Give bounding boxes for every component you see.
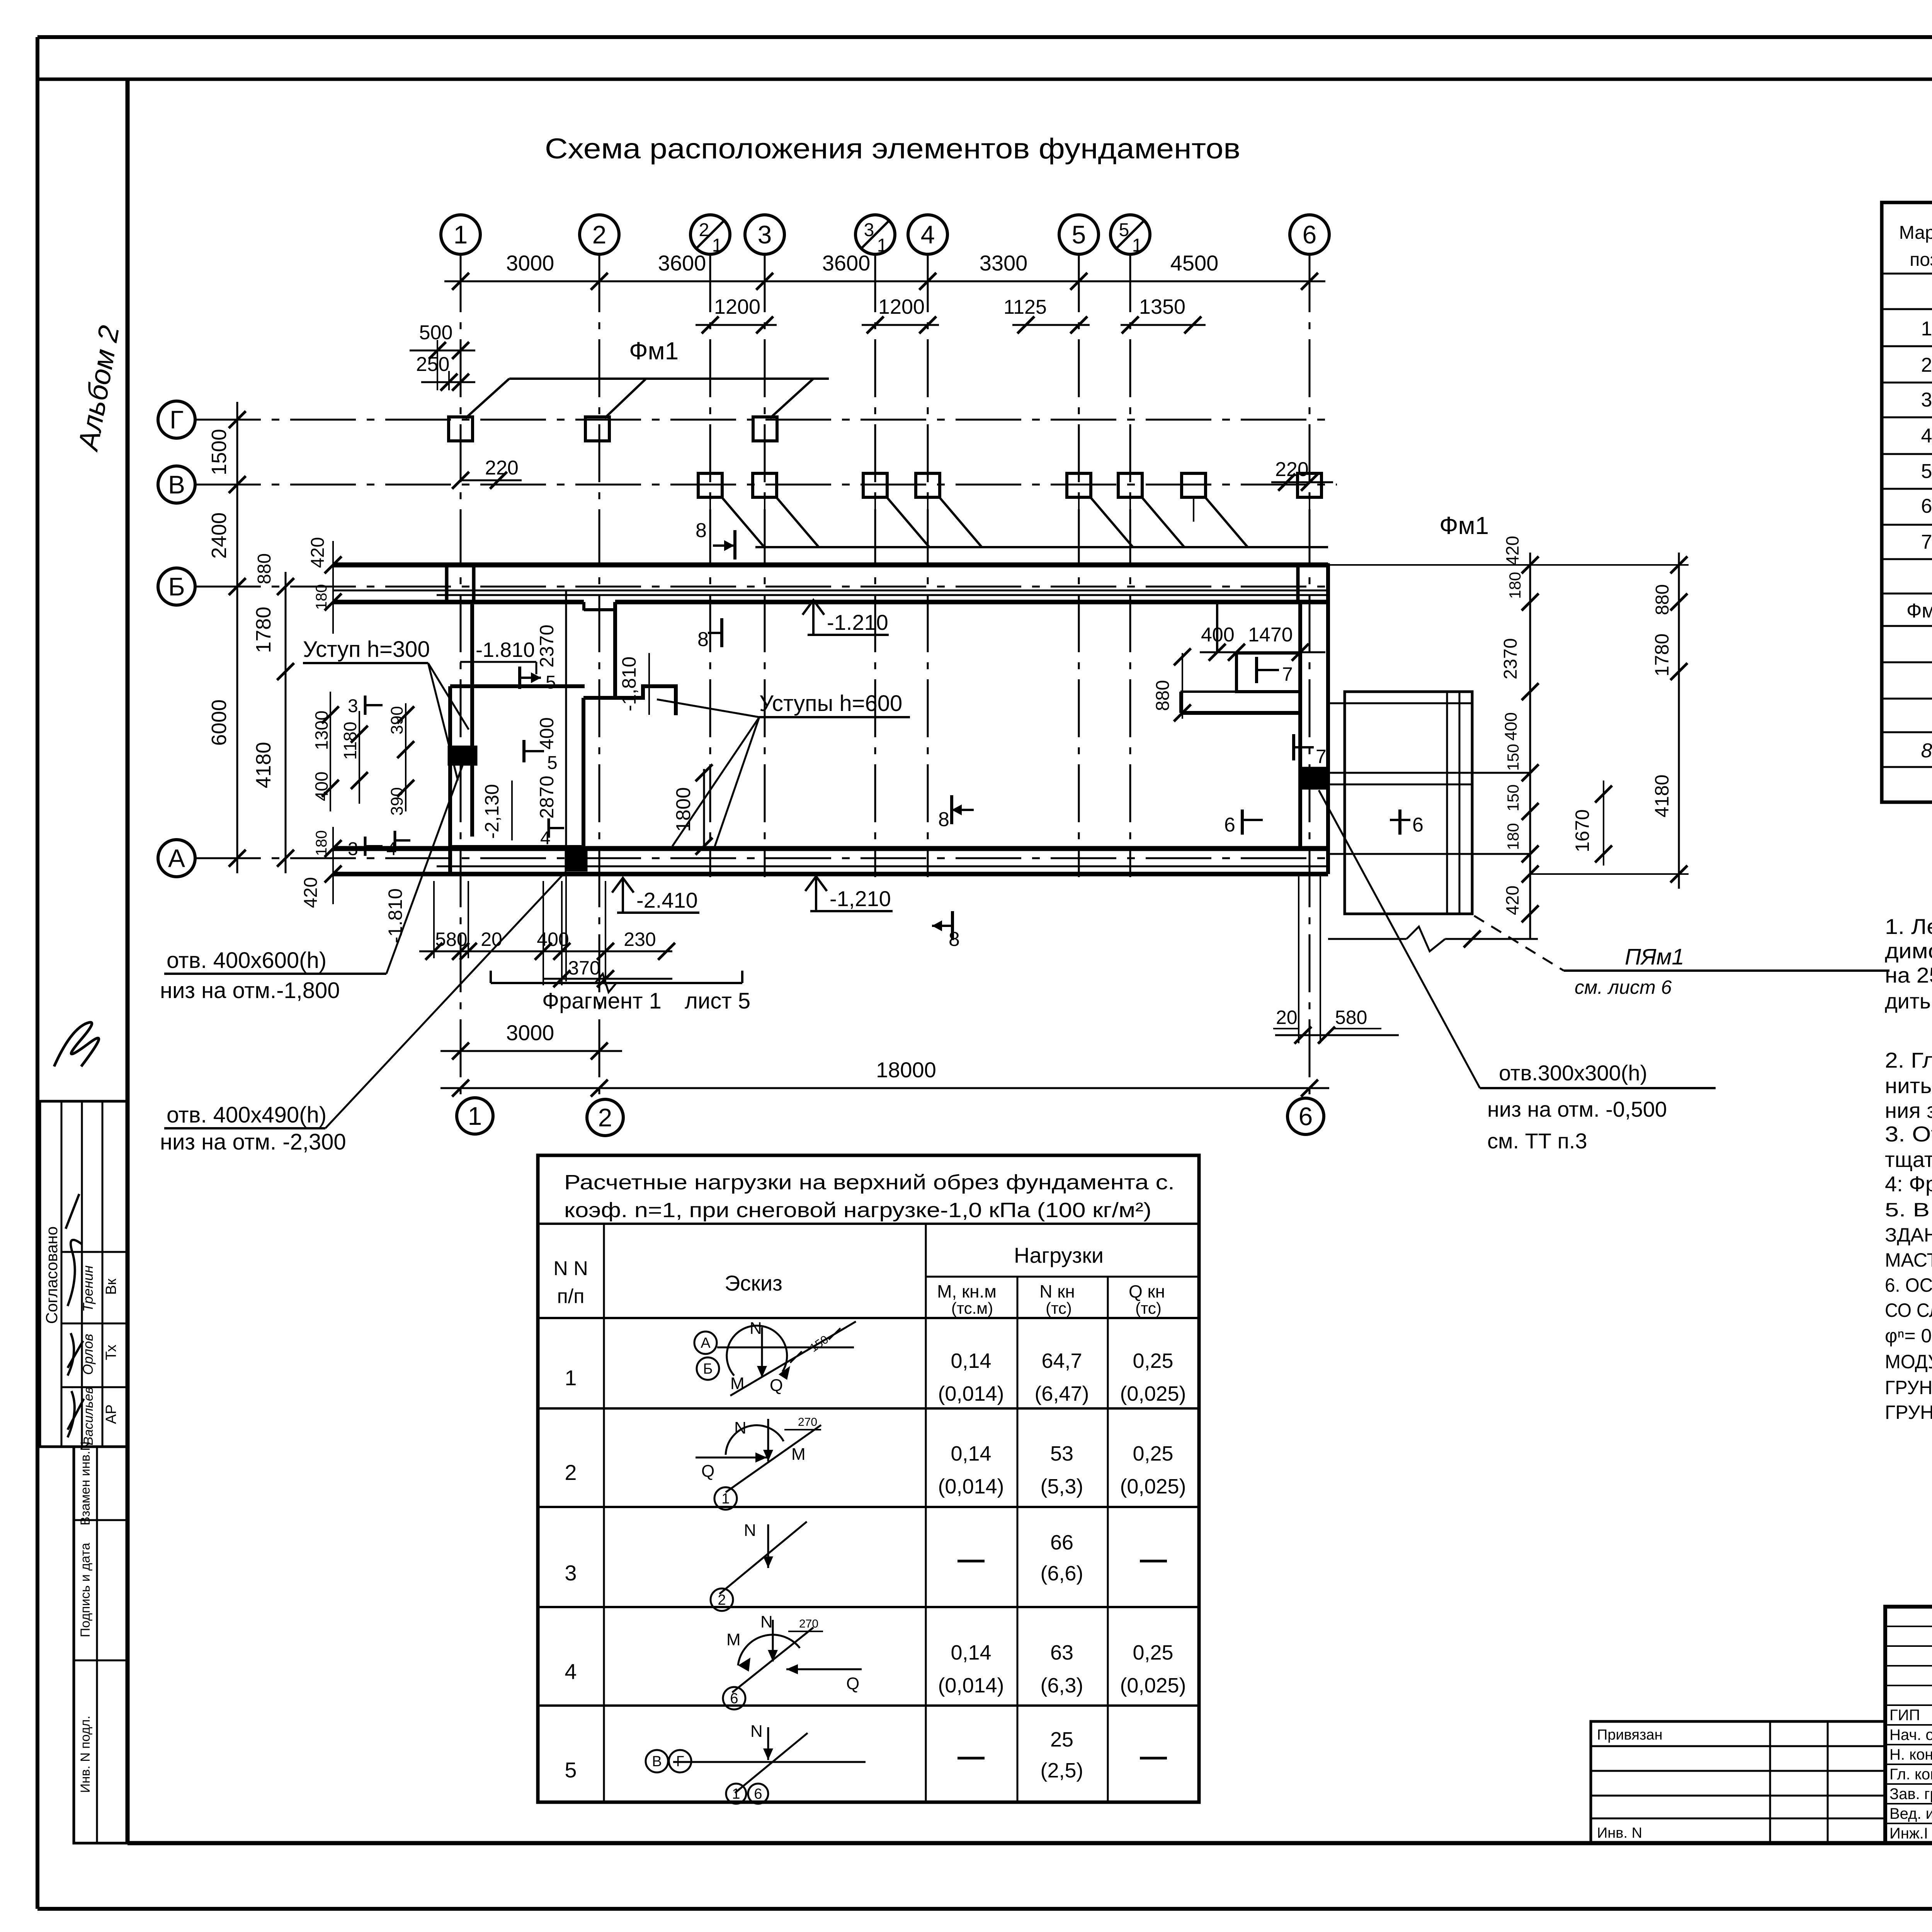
svg-text:(0,014): (0,014) [938, 1475, 1004, 1498]
svg-text:5: 5 [1921, 460, 1932, 483]
axis circle 6 [1290, 215, 1329, 254]
svg-text:Инв. N подл.: Инв. N подл. [78, 1716, 93, 1793]
svg-text:3. Отверстие в фундаменте по: 3. Отверстие в фундаменте по оси 6 после… [1885, 1122, 1932, 1146]
svg-text:180: 180 [1506, 572, 1524, 599]
svg-text:2370: 2370 [536, 624, 558, 667]
svg-text:180: 180 [313, 830, 330, 856]
svg-text:Фм1: Фм1 [1906, 600, 1932, 622]
sketch row4 [723, 1612, 862, 1709]
svg-text:3: 3 [1921, 389, 1932, 411]
level mark -1,210 below А wall [805, 876, 893, 911]
svg-text:1: 1 [454, 220, 468, 249]
bottom dim 3000 [440, 1020, 622, 1060]
small attachment table left of title block [1591, 1721, 1885, 1843]
svg-text:-1.810: -1.810 [384, 888, 406, 943]
svg-text:В: В [652, 1753, 662, 1770]
svg-text:5: 5 [547, 753, 558, 773]
svg-text:8: 8 [1921, 740, 1932, 762]
svg-text:6: 6 [1224, 814, 1235, 836]
svg-text:420: 420 [301, 877, 321, 908]
bottom dim chain 580/20/400/230/370 [419, 874, 675, 987]
svg-text:(5,3): (5,3) [1040, 1475, 1083, 1498]
sketch row2 [696, 1416, 821, 1510]
svg-text:6: 6 [754, 1786, 762, 1802]
bottom dim 18000 [440, 1058, 1329, 1097]
svg-text:4180: 4180 [1651, 774, 1673, 817]
svg-text:2: 2 [699, 220, 709, 240]
svg-text:(0,025): (0,025) [1120, 1475, 1186, 1498]
svg-text:420: 420 [308, 537, 328, 568]
sketch row1 [694, 1319, 856, 1396]
svg-text:270: 270 [799, 1617, 818, 1630]
axis circle А [158, 840, 195, 877]
bottom axis circle 2 [587, 1099, 623, 1136]
svg-text:3: 3 [348, 839, 358, 859]
svg-text:8: 8 [938, 808, 949, 831]
svg-text:Расчетные нагрузки на верхний: Расчетные нагрузки на верхний обрез фунд… [564, 1171, 1175, 1194]
svg-text:25: 25 [1050, 1728, 1073, 1751]
svg-text:5. В МЕСТЕ ПРИМЫКАНИЯ ПРИЯМ: 5. В МЕСТЕ ПРИМЫКАНИЯ ПРИЯМКА ПЯм1 К ФУН… [1885, 1199, 1932, 1221]
svg-text:Фм1: Фм1 [1439, 512, 1489, 539]
rotated dim 400 fragment [536, 717, 558, 749]
svg-text:1300: 1300 [311, 711, 332, 750]
svg-text:880: 880 [1652, 584, 1673, 615]
svg-text:1: 1 [732, 1786, 740, 1802]
svg-text:8: 8 [949, 928, 960, 951]
bottom axis circle 1 [457, 1098, 493, 1134]
axis grid horizontal lines [195, 420, 1337, 858]
section mark 6 left [1224, 810, 1263, 836]
svg-text:дить бетоном класса В 7,5; F 5: дить бетоном класса В 7,5; F 50. [1885, 989, 1932, 1013]
svg-text:4: 4 [1921, 425, 1932, 447]
svg-text:4: 4 [921, 220, 935, 249]
svg-text:(2,5): (2,5) [1040, 1759, 1083, 1782]
svg-text:150: 150 [1504, 784, 1522, 811]
svg-text:6: 6 [1303, 220, 1317, 249]
axis 6 wall witness lines below А [1299, 874, 1320, 1043]
rotated level -1,810 right of fragment [618, 653, 649, 715]
svg-text:2870: 2870 [536, 776, 558, 818]
svg-text:Q: Q [701, 1462, 714, 1481]
load values row5 [957, 1728, 1167, 1782]
dim 400 1470 [1200, 624, 1325, 661]
svg-text:нить при привязке проекта к ме: нить при привязке проекта к местным усло… [1885, 1073, 1932, 1098]
svg-text:3000: 3000 [506, 1020, 554, 1045]
label otv 400x600 [160, 765, 463, 1003]
svg-text:В: В [168, 470, 185, 499]
svg-text:1: 1 [565, 1366, 577, 1390]
top dimension line 3000/3600/3600/3300/4500 [444, 251, 1325, 290]
section mark 5 lower [524, 740, 558, 773]
svg-text:(0,025): (0,025) [1120, 1382, 1186, 1405]
axis circle 2 [580, 215, 619, 254]
svg-text:6. ОСНОВАНИЕМ ФУНДАМЕНТОВ С: 6. ОСНОВАНИЕМ ФУНДАМЕНТОВ СЛУЖАТ ГРУНТЫ … [1885, 1274, 1932, 1296]
axis circle 1 [441, 215, 480, 254]
svg-text:250: 250 [416, 353, 450, 376]
svg-text:880: 880 [254, 553, 275, 584]
svg-text:1180: 1180 [340, 722, 360, 760]
section mark 8 middle [938, 795, 974, 831]
svg-text:(6,3): (6,3) [1040, 1674, 1083, 1697]
svg-text:20: 20 [481, 929, 502, 950]
lower dim line with break near pit [1328, 927, 1538, 951]
section mark 6 right [1390, 810, 1423, 836]
title block signature rows [1889, 1707, 1932, 1842]
svg-text:Нагрузки: Нагрузки [1014, 1243, 1104, 1267]
svg-text:1: 1 [877, 235, 888, 256]
svg-text:6: 6 [1412, 814, 1423, 836]
svg-text:2: 2 [592, 220, 607, 249]
section marks 3 and 4 [348, 696, 564, 859]
offset dim 220 near axis 1 [452, 457, 522, 489]
axis circle 3 [745, 215, 784, 254]
svg-text:1. Ленточные фундаменты из б: 1. Ленточные фундаменты из бетонных блок… [1885, 914, 1932, 939]
svg-text:N: N [760, 1612, 773, 1631]
svg-text:6000: 6000 [207, 699, 231, 746]
load table frame [538, 1155, 1199, 1802]
label Ustupy h=600 [657, 691, 910, 846]
foundation pad squares on axis В [698, 473, 1321, 522]
svg-text:Марка: Марка [1899, 223, 1932, 243]
axis circle 3/1 [855, 215, 895, 256]
svg-text:Уступ h=300: Уступ h=300 [303, 637, 430, 662]
secondary dimension line 1200/1200/1125/1350 [696, 295, 1206, 333]
section mark 8 top [696, 519, 735, 560]
leader otv 300x300 [1319, 790, 1716, 1153]
axis circle 2/1 [690, 215, 730, 256]
svg-text:1125: 1125 [1003, 296, 1047, 318]
svg-text:Q кн: Q кн [1129, 1281, 1165, 1301]
svg-text:1500: 1500 [207, 429, 231, 475]
svg-text:-1,210: -1,210 [830, 886, 891, 911]
svg-text:N: N [750, 1722, 763, 1741]
svg-text:А: А [168, 844, 185, 872]
axis 6 wall [1300, 565, 1328, 874]
notes text block [1885, 914, 1932, 1423]
svg-text:отв.300х300(h): отв.300х300(h) [1499, 1061, 1647, 1085]
svg-text:220: 220 [1275, 458, 1309, 481]
sketch row3 [711, 1521, 807, 1611]
svg-text:1: 1 [721, 1491, 730, 1507]
svg-text:4: 4 [565, 1659, 577, 1684]
leader PYam1 [1474, 916, 1889, 998]
svg-text:7: 7 [1316, 746, 1327, 767]
fragment bracket line [491, 971, 750, 1014]
opening 300x300 filled marker on axis 6 [1300, 767, 1327, 789]
svg-text:тщательно зачеканить раствором: тщательно зачеканить раствором марки 50. [1885, 1147, 1932, 1172]
right dim chain 420/180/2370/400/150/150/180/420 [1500, 536, 1539, 939]
svg-text:3: 3 [565, 1561, 577, 1585]
svg-text:230: 230 [624, 929, 656, 950]
svg-text:см. лист 6: см. лист 6 [1575, 976, 1672, 998]
svg-text:низ на отм.-1,800: низ на отм.-1,800 [160, 978, 340, 1003]
svg-text:ЗДАНИЯ ПОСЛЕДНИЕ ОКРАСИТЬ Г: ЗДАНИЯ ПОСЛЕДНИЕ ОКРАСИТЬ ГОРЯЧЕЙ БИТУМН… [1885, 1224, 1932, 1246]
level mark -1.210 above А wall [803, 600, 889, 635]
svg-text:Привязан: Привязан [1597, 1727, 1663, 1743]
svg-text:Инж.I кат.: Инж.I кат. [1889, 1825, 1932, 1842]
axis circle 4 [908, 215, 947, 254]
section mark 5 upper [520, 667, 556, 693]
load table title [564, 1171, 1175, 1222]
svg-text:1200: 1200 [714, 295, 760, 318]
svg-text:Схема расположения элемент: Схема расположения элементов фундаментов [545, 133, 1240, 165]
spec table grid [1882, 202, 1932, 802]
svg-text:на 250 мм. Заполнение вертикал: на 250 мм. Заполнение вертикальных швов … [1885, 963, 1932, 987]
svg-text:СО СЛЕДУЮЩИМИ НОРМАТИВНЫМИ Х: СО СЛЕДУЮЩИМИ НОРМАТИВНЫМИ ХАРАКТЕРИСТИК… [1885, 1299, 1932, 1321]
axis grid vertical lines [461, 254, 1310, 1099]
svg-text:Нач. отд: Нач. отд [1889, 1726, 1932, 1743]
far right dim chain 880/1780/4180 [1328, 553, 1689, 889]
svg-text:Орлов: Орлов [80, 1334, 96, 1375]
monolithic strip Fm1 along axis В [722, 498, 1328, 547]
drawing title [545, 133, 1240, 165]
svg-text:Вед. инж.: Вед. инж. [1889, 1805, 1932, 1822]
svg-text:Инв. N: Инв. N [1597, 1825, 1642, 1841]
svg-text:3: 3 [758, 220, 772, 249]
dim 20/580 at axis 6 [1273, 1007, 1399, 1044]
svg-text:880: 880 [1153, 680, 1173, 711]
svg-text:2: 2 [565, 1460, 577, 1485]
svg-text:2: 2 [598, 1103, 612, 1132]
svg-text:МОДУЛЬ ДЕФОРМАЦИИ НЕСКАЛЬНЫХ: МОДУЛЬ ДЕФОРМАЦИИ НЕСКАЛЬНЫХ ГРУНТОВ Е= … [1885, 1351, 1932, 1372]
svg-text:Q: Q [770, 1376, 783, 1395]
svg-text:(6,6): (6,6) [1040, 1562, 1083, 1585]
section mark 7 upper [1257, 657, 1293, 685]
svg-text:N N: N N [553, 1257, 588, 1280]
svg-text:Зав. гр.: Зав. гр. [1889, 1786, 1932, 1803]
svg-text:N: N [750, 1319, 762, 1338]
small dims 500/250 left of axis 1 [410, 321, 475, 391]
rotated dim 2370 fragment [536, 624, 558, 667]
axis circle 5/1 [1111, 215, 1150, 256]
svg-text:1470: 1470 [1248, 624, 1293, 646]
svg-text:низ на отм. -2,300: низ на отм. -2,300 [160, 1129, 346, 1155]
load values row4 [938, 1641, 1186, 1697]
opening 400x490 filled marker [565, 851, 587, 871]
svg-text:8: 8 [697, 628, 709, 651]
foundation pad square G3 [753, 417, 777, 441]
svg-text:53: 53 [1050, 1442, 1073, 1465]
svg-text:N кн: N кн [1039, 1281, 1075, 1301]
opening 400x600 filled marker [448, 746, 477, 765]
rotated dim 2870 fragment [536, 776, 558, 818]
small dims cluster 1300/400/1180/390/390 [311, 692, 414, 816]
svg-text:Вк: Вк [103, 1279, 119, 1295]
svg-text:ния зданий и сооружений”.: ния зданий и сооружений”. [1885, 1098, 1932, 1122]
svg-text:6: 6 [1299, 1102, 1313, 1131]
rotated level -1.810 lower left [384, 888, 406, 943]
svg-text:-2,130: -2,130 [481, 784, 503, 839]
svg-text:580: 580 [435, 929, 467, 950]
svg-text:6: 6 [1921, 495, 1932, 517]
svg-text:1: 1 [1921, 318, 1932, 340]
inventory stamp table (Inv N) [74, 1441, 128, 1843]
svg-text:3600: 3600 [822, 251, 871, 275]
svg-text:5: 5 [1119, 220, 1129, 240]
svg-text:0,25: 0,25 [1133, 1442, 1173, 1465]
section mark 8 below А [932, 911, 960, 951]
label Ustup h=300 [303, 637, 469, 781]
svg-text:400: 400 [536, 717, 558, 749]
svg-text:66: 66 [1050, 1531, 1073, 1554]
svg-text:400: 400 [1502, 712, 1520, 740]
svg-text:420: 420 [1502, 886, 1522, 915]
load values row1 [938, 1349, 1186, 1405]
svg-text:180: 180 [1504, 823, 1522, 850]
svg-text:5: 5 [546, 672, 556, 693]
axis circle В [158, 466, 195, 503]
svg-text:1200: 1200 [878, 295, 925, 318]
svg-text:500: 500 [419, 321, 453, 344]
interior basement walls fragment [450, 590, 676, 874]
svg-text:Взамен инв.N: Взамен инв.N [78, 1441, 93, 1526]
svg-text:0,14: 0,14 [951, 1641, 991, 1664]
top strip line [37, 78, 1932, 81]
svg-text:п/п: п/п [557, 1285, 585, 1308]
svg-text:400: 400 [537, 929, 569, 950]
pit PYam1 plan rectangle [1328, 692, 1530, 914]
svg-text:400: 400 [1201, 624, 1235, 646]
svg-text:(тс): (тс) [1135, 1299, 1162, 1317]
svg-text:4: Фрагмент 1 и сечения 3: 4: Фрагмент 1 и сечения 3-3... 8-8 см. н… [1885, 1172, 1932, 1196]
svg-text:M: M [730, 1374, 745, 1393]
svg-text:1780: 1780 [252, 607, 275, 653]
label otv 400x490 [160, 871, 566, 1155]
svg-text:Тх: Тх [103, 1345, 119, 1361]
svg-text:18000: 18000 [876, 1058, 936, 1082]
load values row3 [957, 1531, 1167, 1585]
axis circle Б [158, 568, 195, 605]
axis circle Г [158, 401, 195, 438]
svg-text:1800: 1800 [672, 787, 695, 832]
svg-text:400: 400 [311, 772, 332, 801]
svg-text:0,25: 0,25 [1133, 1641, 1173, 1664]
wall edge dims 180/420 near А [301, 827, 342, 908]
svg-text:АР: АР [103, 1405, 119, 1424]
svg-text:270: 270 [798, 1416, 817, 1429]
svg-text:отв. 400х600(h): отв. 400х600(h) [167, 948, 327, 973]
svg-text:180: 180 [313, 584, 330, 610]
monolithic strip Fm1 over axis Г [466, 379, 829, 418]
offset dim 220 near axis 6 [1271, 458, 1333, 491]
svg-text:370: 370 [568, 957, 600, 979]
svg-text:Q: Q [846, 1674, 859, 1693]
approval stamp table (Soglasovano) [40, 1101, 128, 1447]
svg-text:580: 580 [1335, 1007, 1367, 1028]
svg-text:МАСТИКОЙ ЗА 5 РАЗ.: МАСТИКОЙ ЗА 5 РАЗ. [1885, 1249, 1932, 1271]
svg-text:ГИП: ГИП [1889, 1707, 1920, 1724]
svg-text:2. Глубину заложения и разме: 2. Глубину заложения и размеры подошвы ф… [1885, 1048, 1932, 1072]
svg-text:Б: Б [168, 572, 185, 601]
margin signature scribble [54, 1022, 99, 1066]
svg-text:Г: Г [676, 1753, 684, 1770]
load rows numbers [565, 1366, 577, 1782]
svg-text:M: M [791, 1445, 806, 1464]
left vertical dimension chain 1500/2400/6000 [207, 402, 246, 873]
svg-text:Гл. констр.: Гл. констр. [1889, 1766, 1932, 1783]
svg-text:20: 20 [1276, 1007, 1298, 1028]
svg-text:Подпись и дата: Подпись и дата [78, 1543, 93, 1638]
svg-text:2: 2 [1921, 354, 1932, 376]
svg-text:Г: Г [170, 405, 184, 434]
svg-text:390: 390 [388, 706, 406, 734]
load table headers [553, 1243, 1165, 1317]
foundation pad square G1 [449, 417, 473, 441]
svg-text:ПЯм1: ПЯм1 [1625, 944, 1684, 969]
svg-text:64,7: 64,7 [1041, 1349, 1082, 1372]
svg-text:4180: 4180 [252, 742, 275, 788]
svg-text:коэф. n=1, при снеговой нагруз: коэф. n=1, при снеговой нагрузке-1,0 кПа… [564, 1199, 1151, 1222]
svg-text:1: 1 [1132, 235, 1143, 256]
svg-text:(6,47): (6,47) [1034, 1382, 1089, 1405]
svg-text:2370: 2370 [1500, 638, 1521, 680]
svg-text:0,25: 0,25 [1133, 1349, 1173, 1372]
svg-text:2: 2 [718, 1592, 726, 1608]
svg-text:(0,014): (0,014) [938, 1382, 1004, 1405]
bottom axis circle 6 [1287, 1098, 1324, 1134]
svg-text:φⁿ= 0,49 РАД. ИЛИ 28°; НОРМАТИ: φⁿ= 0,49 РАД. ИЛИ 28°; НОРМАТИВНОЕ УДЕЛЬ… [1885, 1325, 1932, 1347]
wall band axis Б [333, 565, 1328, 611]
svg-text:5: 5 [565, 1758, 577, 1782]
sketch row5 [646, 1722, 866, 1804]
svg-text:Уступы h=600: Уступы h=600 [759, 691, 902, 716]
svg-text:1: 1 [468, 1102, 482, 1130]
svg-text:6: 6 [730, 1690, 738, 1707]
wall edge dims 880/420/180 near Б [254, 537, 342, 634]
dim 1670 rotated [1571, 781, 1612, 866]
svg-text:(тс): (тс) [1046, 1299, 1072, 1317]
foundation pad square G2 [585, 417, 609, 441]
main title block frame [1885, 1607, 1932, 1843]
svg-text:220: 220 [485, 457, 519, 479]
rotated level -2,130 [481, 781, 512, 840]
svg-text:Фм1: Фм1 [629, 337, 679, 365]
section mark 7 lower [1294, 734, 1327, 767]
svg-text:ГРУНТА γ= 1,8 Т/М³ ; КОЭФФИ: ГРУНТА γ= 1,8 Т/М³ ; КОЭФФИЦИЕНТ БЕЗОПАС… [1885, 1377, 1932, 1398]
axis circle 5 [1059, 215, 1099, 254]
svg-text:-2.410: -2.410 [636, 888, 698, 912]
svg-text:поз.: поз. [1910, 250, 1932, 270]
svg-text:Фрагмент 1: Фрагмент 1 [542, 988, 662, 1014]
section mark 8 under Б [697, 618, 722, 651]
level mark -2.410 [612, 878, 699, 913]
svg-text:63: 63 [1050, 1641, 1073, 1664]
svg-text:(тс.м): (тс.м) [951, 1299, 993, 1317]
svg-text:Васильев: Васильев [81, 1387, 96, 1445]
svg-text:1670: 1670 [1571, 809, 1593, 852]
svg-text:2400: 2400 [207, 512, 231, 559]
svg-text:М, кн.м: М, кн.м [937, 1281, 997, 1301]
svg-text:3: 3 [864, 220, 874, 240]
svg-text:димо укладывать на растворе ма: димо укладывать на растворе марки 50 с п… [1885, 939, 1932, 963]
svg-text:отв. 400х490(h): отв. 400х490(h) [167, 1102, 327, 1128]
svg-text:ГРУНТОВЫЕ ВОДЫ ОТСУТСТВУЮТ.: ГРУНТОВЫЕ ВОДЫ ОТСУТСТВУЮТ. [1885, 1401, 1932, 1423]
fragment dims -1.810 top [460, 638, 536, 674]
svg-text:3600: 3600 [658, 251, 706, 275]
svg-text:Согласовано: Согласовано [43, 1226, 61, 1324]
svg-text:M: M [726, 1630, 741, 1649]
svg-text:-1.810: -1.810 [476, 638, 535, 662]
svg-text:-1,810: -1,810 [618, 656, 640, 711]
svg-text:7: 7 [1282, 663, 1293, 685]
svg-text:Эскиз: Эскиз [724, 1271, 782, 1295]
pit entry step near axis 6 [1180, 603, 1302, 713]
svg-text:(0,025): (0,025) [1120, 1674, 1186, 1697]
svg-text:0,14: 0,14 [951, 1349, 991, 1372]
handwritten note Album 2 (rotated) [71, 323, 125, 454]
spec table headers [1899, 223, 1932, 270]
svg-text:(0,014): (0,014) [938, 1674, 1004, 1697]
